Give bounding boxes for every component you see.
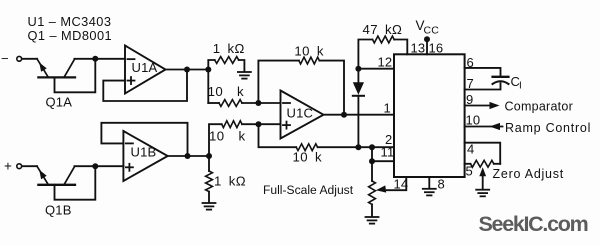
svg-text:1: 1 xyxy=(384,101,391,116)
svg-text:Q1A: Q1A xyxy=(46,95,73,110)
svg-text:I: I xyxy=(519,81,522,92)
svg-text:47 kΩ: 47 kΩ xyxy=(363,22,403,37)
svg-text:10 k: 10 k xyxy=(294,44,323,59)
svg-text:Ramp Control: Ramp Control xyxy=(505,121,591,135)
svg-text:Comparator: Comparator xyxy=(505,100,574,114)
svg-text:10 k: 10 k xyxy=(293,150,322,165)
svg-text:14: 14 xyxy=(394,177,409,192)
svg-text:Q1 – MD8001: Q1 – MD8001 xyxy=(28,28,113,43)
svg-text:10: 10 xyxy=(466,113,481,128)
svg-text:10 k: 10 k xyxy=(209,129,245,144)
svg-text:10 k: 10 k xyxy=(208,84,244,99)
svg-text:U1A: U1A xyxy=(132,60,158,75)
svg-text:Q1B: Q1B xyxy=(45,203,72,218)
svg-text:1 kΩ: 1 kΩ xyxy=(214,174,246,189)
svg-text:Zero Adjust: Zero Adjust xyxy=(493,167,564,181)
svg-text:4: 4 xyxy=(467,142,474,157)
svg-text:12: 12 xyxy=(378,55,393,70)
svg-text:SeekIC.com: SeekIC.com xyxy=(479,212,588,236)
svg-text:11: 11 xyxy=(381,144,395,159)
svg-text:CC: CC xyxy=(424,25,440,37)
svg-text:8: 8 xyxy=(438,177,445,192)
svg-text:16: 16 xyxy=(429,41,444,56)
svg-text:U1 – MC3403: U1 – MC3403 xyxy=(28,14,112,29)
svg-text:13: 13 xyxy=(411,41,426,56)
svg-text:U1B: U1B xyxy=(131,145,157,160)
svg-text:U1C: U1C xyxy=(287,106,314,121)
svg-text:Full-Scale Adjust: Full-Scale Adjust xyxy=(263,183,354,197)
svg-text:−: − xyxy=(1,51,9,66)
svg-text:+: + xyxy=(4,159,12,174)
svg-text:1 kΩ: 1 kΩ xyxy=(213,41,245,56)
